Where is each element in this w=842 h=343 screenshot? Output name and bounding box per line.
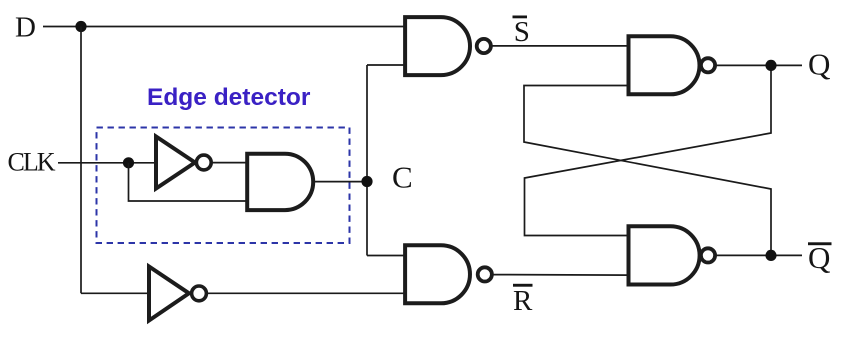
node D branch junction [75,21,86,32]
wire D branch to inverter U4 input [81,292,149,294]
inverter U1 triangle [156,137,195,189]
wire cross-couple from NAND G4 upper input to node Q [525,65,772,235]
wire inverter U1 output to AND U2 upper input [211,162,248,164]
svg-text:D: D [15,12,36,44]
wire node C vertical [366,65,368,256]
NAND gate G4 bubble [701,248,715,262]
svg-text:C: C [392,160,413,195]
node Q junction [765,60,776,71]
svg-text:Q: Q [808,46,830,81]
inverter U1 bubble [196,155,211,170]
inverter U4 bubble [192,286,207,301]
NAND gate G3 [629,36,700,94]
AND gate U2 [247,154,313,210]
wire cross-couple from NAND G3 lower input to node Qbar [524,86,771,256]
label Q overbar [808,242,832,245]
wire NAND G4 output to Qbar [714,254,802,256]
svg-text:R: R [513,285,533,317]
wire CLK input horizontal [58,162,156,164]
wire S-bar from NAND G1 to NAND G3 upper input [492,45,630,47]
inverter U4 triangle [149,267,189,321]
NAND gate G2 bubble [478,267,492,281]
svg-text:CLK: CLK [8,148,56,177]
wire D input horizontal [43,26,406,28]
node C junction [361,176,372,187]
NAND gate G2 [405,245,470,303]
edge detector dashed box [97,128,350,244]
NAND gate G1 [405,17,470,75]
wire node C to NAND G1 lower input [367,64,406,66]
svg-text:Edge detector: Edge detector [147,84,311,111]
wire inverter U4 output to NAND G2 lower input [207,292,406,294]
wire NAND G3 output to Q [714,64,802,66]
NAND gate G3 bubble [701,58,715,72]
node CLK junction [123,157,134,168]
NAND gate G1 bubble [477,39,491,53]
svg-text:S: S [514,16,530,48]
wire CLK feedback down and right to AND U2 lower input [129,163,249,201]
NAND gate G4 [629,226,700,284]
wire D branch vertical [80,27,82,294]
node Qbar junction [765,250,776,261]
wire node C to NAND G2 upper input [367,255,406,257]
label R overbar [513,284,533,287]
wire AND U2 output to node C [313,181,367,183]
wire R-bar from NAND G2 to NAND G4 lower input [493,274,630,277]
label S overbar [513,16,528,19]
